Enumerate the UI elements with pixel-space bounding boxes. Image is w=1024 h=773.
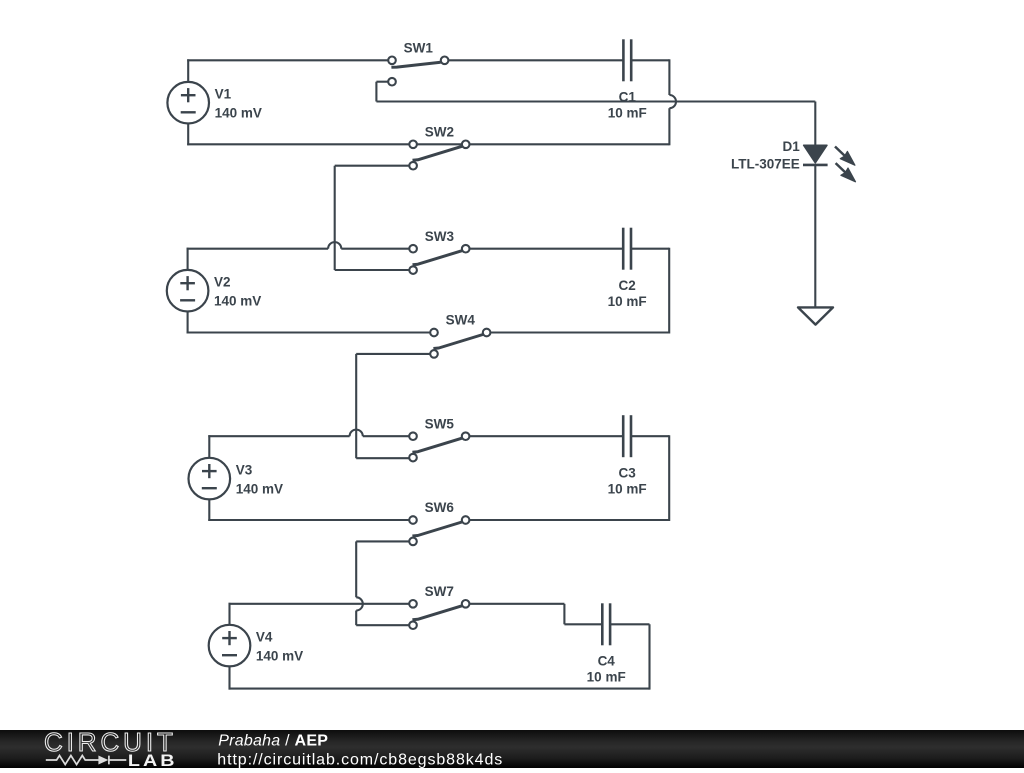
svg-text:SW1: SW1 — [404, 41, 434, 56]
svg-text:140 mV: 140 mV — [256, 648, 303, 663]
svg-text:C3: C3 — [618, 465, 636, 480]
svg-text:SW5: SW5 — [425, 416, 455, 431]
svg-text:V2: V2 — [214, 275, 231, 290]
svg-text:C2: C2 — [618, 278, 635, 293]
svg-text:http://circuitlab.com/cb8egsb8: http://circuitlab.com/cb8egsb88k4ds — [217, 751, 503, 768]
svg-text:LAB: LAB — [128, 750, 178, 768]
svg-text:SW6: SW6 — [425, 500, 455, 515]
svg-text:SW3: SW3 — [425, 229, 455, 244]
svg-text:SW4: SW4 — [446, 313, 476, 328]
svg-text:10 mF: 10 mF — [608, 482, 647, 497]
svg-text:V1: V1 — [215, 87, 232, 102]
svg-text:SW2: SW2 — [425, 125, 454, 140]
svg-text:10 mF: 10 mF — [587, 670, 626, 685]
svg-text:SW7: SW7 — [425, 584, 454, 599]
svg-text:Prabaha / AEP: Prabaha / AEP — [218, 732, 328, 749]
svg-text:LTL-307EE: LTL-307EE — [731, 156, 800, 171]
svg-text:C4: C4 — [598, 653, 616, 668]
svg-text:D1: D1 — [783, 139, 801, 154]
svg-text:10 mF: 10 mF — [608, 294, 647, 309]
svg-text:V3: V3 — [236, 463, 253, 478]
svg-text:140 mV: 140 mV — [236, 481, 283, 496]
svg-text:140 mV: 140 mV — [214, 293, 261, 308]
svg-text:10 mF: 10 mF — [608, 106, 647, 121]
svg-text:140 mV: 140 mV — [215, 105, 262, 120]
svg-text:V4: V4 — [256, 630, 273, 645]
